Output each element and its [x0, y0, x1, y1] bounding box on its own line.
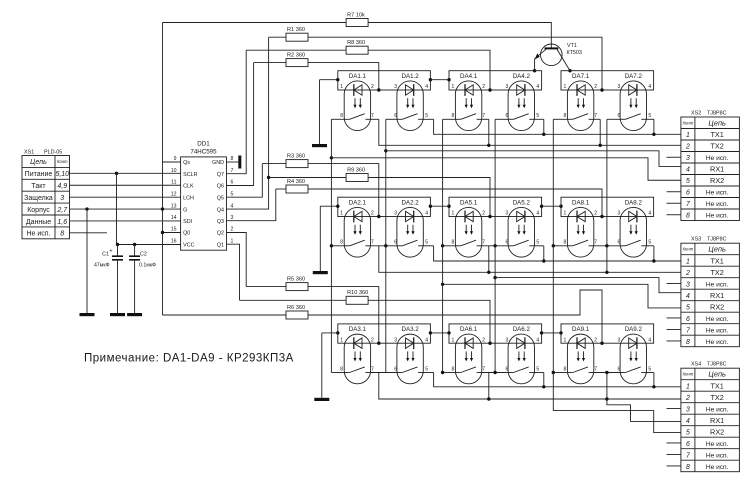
svg-text:Конт: Конт: [683, 247, 694, 252]
svg-text:3: 3: [618, 84, 621, 90]
relay DA3.1: [344, 334, 370, 384]
wire rail DA8.2-left joins TX2 bus: [605, 271, 608, 274]
wire row1 link DA pair1-pair2: [430, 79, 449, 81]
svg-text:8: 8: [452, 366, 455, 372]
ground bar DD1 GND (rotated): [238, 156, 241, 169]
svg-text:DA2.2: DA2.2: [401, 199, 419, 206]
svg-text:7: 7: [594, 240, 597, 246]
svg-text:4: 4: [425, 211, 428, 217]
wire Q3 to R4 riser: [227, 189, 276, 221]
wire rail DA7.1-left continues to row3: [552, 246, 554, 373]
wire row3 link pair2-pair3: [542, 332, 561, 334]
svg-text:1: 1: [340, 337, 343, 343]
svg-text:6: 6: [686, 316, 690, 323]
mid feed node DA6: [488, 342, 491, 345]
svg-text:1: 1: [452, 84, 455, 90]
svg-text:8: 8: [60, 231, 64, 238]
IC DD1 body: [181, 157, 227, 250]
svg-text:2: 2: [685, 144, 690, 151]
svg-text:8: 8: [564, 366, 567, 372]
svg-text:1: 1: [231, 238, 234, 244]
relay DA8.2: [620, 207, 646, 257]
svg-text:4,9: 4,9: [57, 183, 67, 190]
svg-text:Q0: Q0: [183, 231, 190, 237]
connector XS1 table: [22, 156, 70, 239]
svg-text:2: 2: [594, 337, 597, 343]
svg-text:XS3: XS3: [691, 237, 701, 243]
svg-text:DA7.1: DA7.1: [572, 73, 590, 80]
svg-text:DD1: DD1: [197, 141, 210, 148]
svg-text:7: 7: [231, 168, 234, 174]
package box DA5: [449, 197, 542, 216]
svg-text:7: 7: [371, 113, 374, 119]
svg-text:13: 13: [171, 203, 177, 209]
svg-text:6: 6: [506, 240, 509, 246]
svg-text:XS1: XS1: [24, 150, 34, 156]
resistor R8: [346, 46, 368, 54]
svg-text:Корпус: Корпус: [27, 207, 50, 214]
package box DA2: [338, 197, 431, 216]
wire R3 right lead to DA2 mid: [308, 164, 379, 217]
svg-text:Q3: Q3: [217, 219, 224, 225]
svg-text:Защелка: Защелка: [24, 195, 53, 202]
wire R3 left lead: [262, 163, 286, 165]
svg-text:4: 4: [686, 167, 690, 174]
wire rail DA7.2 switch-left down: [606, 119, 608, 246]
svg-text:2: 2: [482, 211, 485, 217]
svg-text:Не исп.: Не исп.: [706, 213, 729, 220]
svg-text:DA3.1: DA3.1: [349, 326, 367, 333]
resistor R3: [286, 160, 308, 168]
wire row2 pin1 to ground: [320, 205, 338, 207]
svg-text:5: 5: [648, 240, 651, 246]
svg-text:2: 2: [371, 337, 374, 343]
svg-text:7: 7: [371, 240, 374, 246]
svg-text:7: 7: [482, 366, 485, 372]
junction dots row2 package pins: [336, 205, 339, 208]
package box DA7: [561, 71, 654, 90]
svg-text:DA4.1: DA4.1: [460, 73, 478, 80]
wire Q4 to R1 riser: [227, 37, 269, 209]
capacitor C2 0.1мкФ: [134, 245, 136, 256]
wire Q1 to R10 riser: [227, 244, 240, 300]
wire XS2 unused stubs: [667, 156, 681, 158]
svg-text:9: 9: [174, 156, 177, 162]
svg-text:5: 5: [686, 304, 690, 311]
wire Корпус ground lead: [86, 209, 88, 313]
svg-text:7: 7: [371, 366, 374, 372]
relay DA3.2: [397, 334, 423, 384]
wire rail DD1 pin9/pin15 column: [162, 23, 164, 316]
package box DA1: [338, 71, 431, 90]
junction dot C1 tap: [116, 243, 119, 246]
svg-text:6: 6: [394, 366, 397, 372]
wire R9 right lead to DA5 mid: [368, 178, 490, 217]
svg-text:4: 4: [648, 337, 651, 343]
bus TX1 to XS2: [434, 119, 681, 134]
wire R6 left lead: [163, 314, 287, 316]
relay DA9.2: [620, 334, 646, 384]
svg-text:3: 3: [686, 155, 690, 162]
svg-text:8: 8: [686, 339, 690, 346]
wire R6 right lead to DA9 mid: [308, 290, 602, 343]
svg-text:Не исп.: Не исп.: [706, 201, 729, 208]
svg-text:2: 2: [371, 211, 374, 217]
svg-text:VCC: VCC: [183, 242, 194, 248]
svg-text:6: 6: [506, 366, 509, 372]
svg-text:1: 1: [340, 211, 343, 217]
relay DA4.2: [508, 81, 534, 131]
resistor R5: [286, 283, 308, 291]
svg-text:8: 8: [340, 240, 343, 246]
svg-text:1: 1: [686, 383, 690, 390]
svg-text:Не исп.: Не исп.: [706, 339, 729, 346]
svg-text:PLD-05: PLD-05: [44, 150, 62, 156]
svg-text:DA2.1: DA2.1: [349, 199, 367, 206]
svg-text:6: 6: [394, 113, 397, 119]
svg-text:DA5.1: DA5.1: [460, 199, 478, 206]
wire row1 switch stubs: [331, 118, 344, 120]
wire Q7 to R8 riser: [227, 50, 247, 174]
wire Q5 to R3 riser: [227, 164, 263, 198]
svg-text:8: 8: [564, 113, 567, 119]
svg-text:Q6: Q6: [217, 184, 224, 190]
svg-text:6: 6: [618, 240, 621, 246]
wire R10 right lead to DA6 mid: [368, 300, 490, 343]
svg-text:2: 2: [685, 395, 690, 402]
svg-text:5: 5: [425, 240, 428, 246]
svg-text:RX2: RX2: [710, 302, 724, 311]
svg-text:1: 1: [564, 337, 567, 343]
svg-text:0.1мкФ: 0.1мкФ: [139, 263, 156, 269]
svg-text:Такт: Такт: [31, 183, 46, 190]
svg-text:3: 3: [686, 406, 690, 413]
svg-text:Конт: Конт: [683, 120, 694, 125]
svg-text:КТ503: КТ503: [567, 50, 582, 56]
svg-text:DA8.1: DA8.1: [572, 199, 590, 206]
bus RX2 to XS4: [552, 371, 555, 374]
svg-text:5: 5: [686, 429, 690, 436]
svg-text:Q7: Q7: [217, 172, 224, 178]
resistor R2: [286, 59, 308, 67]
svg-text:16: 16: [171, 238, 177, 244]
wire DD1 pin15 stub: [163, 232, 181, 234]
svg-text:TX1: TX1: [710, 130, 723, 139]
svg-text:6: 6: [686, 441, 690, 448]
wire R2 left lead: [254, 62, 286, 64]
svg-text:8: 8: [686, 464, 690, 471]
wire Q2 to R5 riser: [227, 233, 247, 287]
wire rail DA4.1 switch-left down: [442, 119, 444, 246]
wire R5 left lead: [246, 286, 286, 288]
svg-text:DA9.1: DA9.1: [572, 326, 590, 333]
wire rail DA4.2 switch-left down: [494, 119, 496, 246]
svg-text:XS2: XS2: [691, 111, 701, 117]
svg-text:47мкФ: 47мкФ: [94, 263, 110, 269]
svg-text:DA8.2: DA8.2: [625, 199, 643, 206]
package box DA4: [449, 71, 542, 90]
wire R5 right lead to DA3 mid: [308, 287, 379, 344]
svg-text:DA1.1: DA1.1: [349, 73, 367, 80]
svg-text:4: 4: [425, 84, 428, 90]
wire net Такт to CLK: [70, 184, 181, 186]
svg-text:4: 4: [231, 203, 234, 209]
svg-text:3: 3: [506, 211, 509, 217]
svg-text:G: G: [183, 207, 187, 213]
svg-text:7: 7: [482, 113, 485, 119]
relay DA5.1: [455, 207, 481, 257]
junction dot VT1 collector: [568, 69, 571, 72]
bus RX1 to XS2: [384, 149, 387, 152]
junction dot Q4 riser / R9 tap: [267, 176, 270, 179]
svg-text:6: 6: [394, 240, 397, 246]
bus TX2 to XS2: [379, 119, 681, 145]
svg-text:Q1: Q1: [217, 242, 224, 248]
svg-text:5: 5: [686, 178, 690, 185]
bus TX2 to XS3: [379, 246, 681, 272]
svg-text:74HC595: 74HC595: [190, 149, 217, 156]
svg-text:3: 3: [618, 337, 621, 343]
svg-text:5: 5: [536, 240, 539, 246]
svg-text:R1 360: R1 360: [287, 27, 305, 33]
wire R2 right lead to DA1 mid: [308, 63, 379, 90]
wire rail DA7.1 switch-left down: [552, 119, 554, 246]
svg-text:14: 14: [171, 215, 177, 221]
svg-text:3: 3: [618, 211, 621, 217]
svg-text:5: 5: [231, 191, 234, 197]
svg-text:1: 1: [686, 258, 690, 265]
wire DD1 pin9 stub: [163, 161, 181, 163]
wire net Данные to SDI: [70, 220, 181, 222]
junction dot Питание/VCC branch: [115, 172, 118, 175]
svg-text:5: 5: [648, 366, 651, 372]
svg-text:1: 1: [452, 211, 455, 217]
transistor VT1 KT503: [541, 44, 563, 66]
svg-text:2: 2: [231, 227, 234, 233]
wire net Питание to SCLR: [70, 172, 181, 174]
svg-text:2: 2: [371, 84, 374, 90]
svg-text:1: 1: [452, 337, 455, 343]
mid feed node DA1: [377, 88, 380, 91]
wire XS3 unused stubs: [667, 282, 681, 284]
wire rail DA x.2 switch-left column: [385, 119, 387, 372]
wire R7 left lead: [163, 22, 347, 24]
ground bar C2: [127, 313, 142, 316]
wire net Защелка to LCH: [70, 196, 181, 198]
relay DA5.2: [508, 207, 534, 257]
svg-text:DA5.2: DA5.2: [513, 199, 531, 206]
svg-text:Цепь: Цепь: [708, 118, 726, 127]
junction dot rail pin15: [161, 231, 164, 234]
wire R1 right lead to DA7 mid: [308, 37, 602, 90]
ground bar row2: [313, 271, 328, 274]
mid feed node DA2: [377, 215, 380, 218]
svg-text:Не исп.: Не исп.: [706, 155, 729, 162]
svg-text:4: 4: [425, 337, 428, 343]
bus RX1 to XS3: [493, 276, 496, 279]
svg-text:2: 2: [482, 337, 485, 343]
svg-text:Q2: Q2: [217, 231, 224, 237]
svg-text:Цепь: Цепь: [708, 245, 726, 254]
svg-text:R2 360: R2 360: [287, 52, 305, 58]
svg-text:RX2: RX2: [710, 427, 724, 436]
svg-text:Не исп.: Не исп.: [706, 327, 729, 334]
svg-text:R4 360: R4 360: [287, 179, 305, 185]
svg-text:TJ8P8C: TJ8P8C: [707, 237, 727, 243]
svg-text:TJ8P8C: TJ8P8C: [707, 362, 727, 368]
junction dot C2 tap: [133, 243, 136, 246]
svg-text:4: 4: [536, 211, 539, 217]
resistor R4: [286, 185, 308, 193]
svg-text:DA6.1: DA6.1: [460, 326, 478, 333]
wire XS4 unused stubs: [667, 407, 681, 409]
wire R10 left lead: [240, 299, 347, 301]
svg-text:6: 6: [618, 366, 621, 372]
wire R1 left lead: [269, 36, 286, 38]
connector XS3 table: [681, 243, 740, 347]
svg-text:XS4: XS4: [691, 362, 701, 368]
svg-text:R6 360: R6 360: [287, 305, 305, 311]
svg-text:DA9.2: DA9.2: [625, 326, 643, 333]
mid feed node DA7: [600, 88, 603, 91]
svg-text:RX2: RX2: [710, 176, 724, 185]
relay DA1.1: [344, 81, 370, 131]
svg-text:DA3.2: DA3.2: [401, 326, 419, 333]
svg-text:1: 1: [564, 84, 567, 90]
svg-text:DA1.2: DA1.2: [401, 73, 419, 80]
svg-text:3: 3: [231, 215, 234, 221]
ground bar Корпус: [80, 313, 95, 316]
svg-text:LCH: LCH: [183, 195, 194, 201]
relay DA6.1: [455, 334, 481, 384]
svg-text:R7 10k: R7 10k: [347, 12, 365, 18]
svg-text:8: 8: [686, 213, 690, 220]
svg-text:DA4.2: DA4.2: [513, 73, 531, 80]
svg-text:4: 4: [648, 84, 651, 90]
svg-text:15: 15: [171, 227, 177, 233]
svg-text:3: 3: [506, 84, 509, 90]
svg-text:6: 6: [618, 113, 621, 119]
svg-text:Не исп.: Не исп.: [706, 190, 729, 197]
svg-text:TX1: TX1: [710, 381, 723, 390]
wire row2 link DA pair1-pair2: [430, 205, 449, 207]
svg-text:C1: C1: [102, 252, 109, 258]
resistor R7: [346, 19, 368, 27]
svg-text:TJ8P8C: TJ8P8C: [707, 111, 727, 117]
svg-text:TX2: TX2: [710, 142, 723, 151]
svg-text:DA6.2: DA6.2: [513, 326, 531, 333]
resistor R9: [346, 174, 368, 182]
svg-text:2: 2: [685, 270, 690, 277]
svg-text:RX1: RX1: [710, 291, 724, 300]
relay DA7.2: [620, 81, 646, 131]
svg-text:Не исп.: Не исп.: [706, 281, 729, 288]
svg-text:+: +: [109, 249, 112, 255]
svg-text:1: 1: [686, 132, 690, 139]
wire DD1 GND pin stub: [227, 161, 239, 163]
svg-text:6: 6: [231, 180, 234, 186]
junction dot Корпус ground branch: [85, 207, 88, 210]
svg-text:GND: GND: [212, 160, 224, 166]
svg-text:8: 8: [564, 240, 567, 246]
resistor R10: [346, 296, 368, 304]
svg-text:4: 4: [686, 418, 690, 425]
svg-text:Питание: Питание: [25, 171, 53, 178]
svg-text:VT1: VT1: [567, 43, 577, 49]
svg-text:Конт: Конт: [683, 372, 694, 377]
svg-text:6: 6: [506, 113, 509, 119]
svg-text:Конт: Конт: [57, 159, 68, 164]
svg-text:4: 4: [536, 337, 539, 343]
mid feed node DA5: [488, 215, 491, 218]
wire R8 left lead: [246, 49, 346, 51]
svg-text:2: 2: [594, 211, 597, 217]
svg-text:8: 8: [452, 240, 455, 246]
svg-text:3: 3: [394, 84, 397, 90]
package box DA3: [338, 324, 431, 343]
package box DA6: [449, 324, 542, 343]
svg-text:3: 3: [394, 337, 397, 343]
wire rail DA x.1 switch-left column: [330, 119, 332, 372]
wire XS1 pin8 stub: [70, 232, 108, 234]
wire R8 right lead to DA4 mid: [368, 50, 490, 90]
svg-text:Не исп.: Не исп.: [706, 316, 729, 323]
svg-text:DA7.2: DA7.2: [625, 73, 643, 80]
wire R9 left lead: [269, 177, 347, 179]
svg-text:2: 2: [594, 84, 597, 90]
wire R4 right lead to DA8 mid: [308, 189, 602, 217]
ground bar row3: [314, 398, 329, 401]
wire Q6 to R2 riser: [227, 63, 254, 186]
svg-text:Q4: Q4: [217, 207, 224, 213]
wire row3 pin1 to ground: [322, 332, 338, 334]
bus TX1 to XS4: [434, 373, 681, 387]
svg-text:Цепь: Цепь: [30, 159, 47, 166]
svg-text:Не исп.: Не исп.: [706, 406, 729, 413]
svg-text:5: 5: [425, 113, 428, 119]
svg-text:Цепь: Цепь: [708, 370, 726, 379]
bus RX1 to XS4: [605, 371, 608, 374]
svg-text:R9 360: R9 360: [347, 167, 365, 173]
svg-text:5: 5: [648, 113, 651, 119]
svg-text:TX1: TX1: [710, 256, 723, 265]
svg-text:6: 6: [686, 190, 690, 197]
resistor R1: [286, 33, 308, 41]
package box DA8: [561, 197, 654, 216]
relay DA8.1: [567, 207, 593, 257]
mid feed node DA9: [600, 342, 603, 345]
svg-text:5: 5: [536, 366, 539, 372]
svg-text:1: 1: [564, 211, 567, 217]
svg-text:7: 7: [594, 113, 597, 119]
wire row2 switch stubs: [331, 245, 344, 247]
junction dots row3 package pins: [336, 331, 339, 334]
relay DA9.1: [567, 334, 593, 384]
svg-text:R10 360: R10 360: [347, 290, 368, 296]
wire net Корпус to G: [70, 208, 181, 210]
svg-text:8: 8: [452, 113, 455, 119]
svg-text:SDI: SDI: [183, 219, 192, 225]
mid feed node DA8: [600, 215, 603, 218]
svg-text:Не исп.: Не исп.: [706, 452, 729, 459]
svg-text:5: 5: [425, 366, 428, 372]
relay DA2.2: [397, 207, 423, 257]
svg-text:Не исп.: Не исп.: [26, 231, 50, 238]
svg-text:Не исп.: Не исп.: [706, 441, 729, 448]
svg-text:12: 12: [171, 191, 177, 197]
svg-text:Q5: Q5: [217, 195, 224, 201]
svg-text:RX1: RX1: [710, 165, 724, 174]
